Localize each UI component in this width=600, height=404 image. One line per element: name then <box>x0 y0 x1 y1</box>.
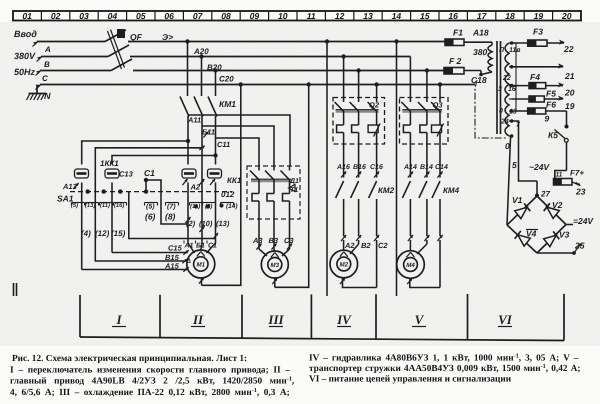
svg-text:08: 08 <box>221 11 231 21</box>
svg-text:14: 14 <box>392 11 402 21</box>
svg-text:03: 03 <box>79 11 89 21</box>
svg-text:15: 15 <box>420 11 430 21</box>
svg-text:02: 02 <box>51 11 61 21</box>
svg-text:05: 05 <box>136 11 146 21</box>
svg-text:I – переключатель изменения ск: I – переключатель изменения скорости гла… <box>10 365 290 375</box>
svg-text:11: 11 <box>307 11 316 21</box>
svg-text:17: 17 <box>477 11 488 21</box>
svg-text:09: 09 <box>250 11 260 21</box>
svg-text:4, 6/5,6 А; III – охлаждение П: 4, 6/5,6 А; III – охлаждение ПА-22 0,12 … <box>10 387 290 398</box>
svg-text:транспортер стружки 4АА50В4УЗ: транспортер стружки 4АА50В4УЗ 0,009 кВт,… <box>309 363 580 374</box>
svg-text:VI – питание цепей управления: VI – питание цепей управления и сигнализ… <box>309 375 512 385</box>
svg-text:20: 20 <box>561 11 572 21</box>
svg-text:07: 07 <box>193 11 204 21</box>
svg-text:13: 13 <box>363 11 373 21</box>
svg-text:01: 01 <box>22 11 32 21</box>
svg-text:10: 10 <box>278 11 288 21</box>
svg-text:16: 16 <box>448 11 458 21</box>
svg-text:IV – гидравлика 4А80В6УЗ 1, 1: IV – гидравлика 4А80В6УЗ 1, 1 кВт, 1000 … <box>309 352 579 363</box>
svg-text:06: 06 <box>164 11 174 21</box>
svg-text:04: 04 <box>108 11 118 21</box>
svg-text:Рис. 12. Схема электрическая п: Рис. 12. Схема электрическая принципиаль… <box>12 354 247 364</box>
svg-text:18: 18 <box>505 11 515 21</box>
svg-text:12: 12 <box>335 11 345 21</box>
svg-text:19: 19 <box>534 11 544 21</box>
svg-text:главный привод 4А90LB 4/2УЗ 2: главный привод 4А90LB 4/2УЗ 2 /2,5 кВт, … <box>10 376 294 387</box>
